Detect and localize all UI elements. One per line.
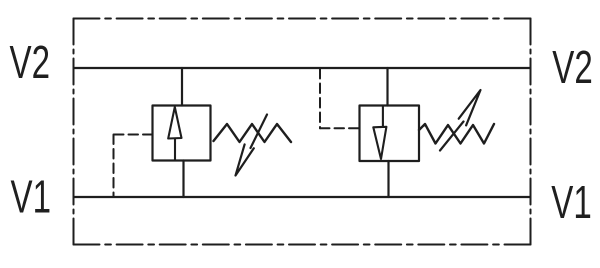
valve 2 spring (zigzag) [419, 124, 494, 144]
wire V2 to valve 1 [181, 68, 183, 106]
svg-text:V1: V1 [11, 172, 52, 222]
valve 1 spring (zigzag) [214, 124, 292, 142]
svg-text:V2: V2 [10, 38, 51, 88]
valve 1 adjustment arrow (diagonal, pointing down-left) [236, 115, 268, 176]
relief valve V2->V1 body (right square) [360, 106, 420, 162]
wire valve 1 to V1 [182, 161, 184, 198]
valve 1 pilot line (dashed) to V1 [114, 135, 153, 197]
svg-text:V1: V1 [551, 178, 592, 228]
svg-text:V2: V2 [552, 43, 593, 93]
relief valve V1->V2 body (left square) [153, 106, 211, 161]
wire valve 2 to V1 [387, 161, 389, 197]
relief valve 1 flow arrow (hollow, pointing up) [168, 107, 181, 161]
enclosure border (dash-dot subplate boundary) [74, 19, 531, 245]
valve 2 pilot line (dashed) to V2 [320, 69, 360, 128]
valve 2 adjustment arrow (diagonal, pointing up-right) [440, 90, 481, 151]
port line V2 (top manifold line) [74, 67, 530, 69]
port line V1 (bottom manifold line) [74, 196, 530, 198]
wire V2 to valve 2 [386, 68, 388, 106]
relief valve 2 flow arrow (hollow, pointing down) [373, 106, 386, 160]
